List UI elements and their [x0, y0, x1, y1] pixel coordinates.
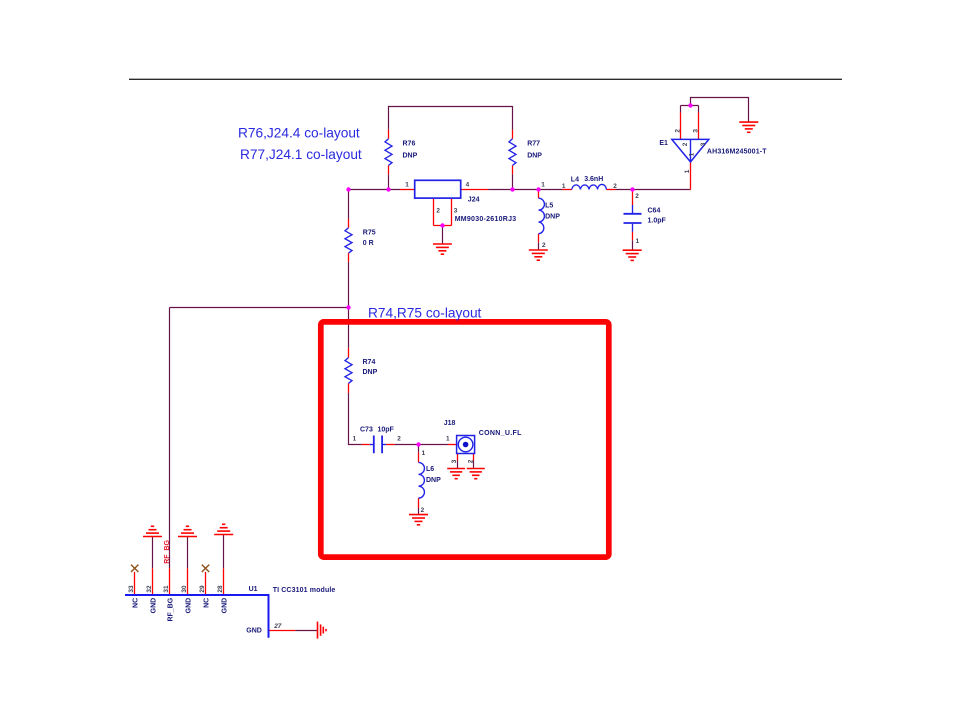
connector J18 body: [457, 436, 475, 454]
svg-text:1: 1: [353, 436, 357, 443]
pin stub R75 top: [348, 219, 350, 228]
svg-text:DNP: DNP: [527, 153, 542, 160]
svg-text:2: 2: [682, 142, 689, 146]
svg-text:2: 2: [397, 436, 401, 443]
pin stub antenna pin2: [680, 113, 682, 140]
wire R76 bottom to rail: [388, 174, 390, 189]
pin stub J24 pin3: [451, 198, 453, 225]
svg-text:10pF: 10pF: [378, 427, 395, 434]
svg-text:1: 1: [541, 181, 545, 188]
pin stub C73 pin2: [386, 444, 394, 446]
svg-text:DNP: DNP: [545, 214, 560, 221]
svg-text:28: 28: [217, 585, 224, 593]
svg-text:C64: C64: [648, 207, 661, 214]
svg-text:GND: GND: [186, 598, 193, 614]
svg-text:AH316M245001-T: AH316M245001-T: [707, 149, 767, 156]
wire U1 pin27 to ground: [295, 630, 317, 632]
wire antenna to ground: [691, 98, 749, 122]
svg-text:GND: GND: [222, 598, 229, 614]
pin stub R74 top: [348, 348, 350, 358]
pin stub J24 pin2: [433, 198, 435, 225]
ground L6: [409, 515, 428, 525]
node C73/J18/L6: [416, 442, 420, 446]
wire J24 pins ground stem: [442, 226, 444, 244]
svg-text:4: 4: [466, 181, 470, 188]
ground J18 pin3: [447, 469, 465, 479]
svg-text:L6: L6: [426, 466, 434, 473]
svg-text:2: 2: [635, 193, 639, 200]
svg-text:3: 3: [454, 207, 458, 214]
pin stub R77 top: [512, 130, 514, 139]
svg-text:1: 1: [688, 152, 695, 156]
ground U1 pin30 (inverted): [178, 526, 197, 536]
wire R76-R77 top loop: [389, 107, 513, 130]
wire antenna pin2 top: [680, 106, 682, 113]
pin stub L5 pin2: [538, 234, 540, 243]
svg-text:R74: R74: [363, 359, 376, 366]
pin stub R74 bottom: [348, 383, 350, 393]
svg-text:TI CC3101 module: TI CC3101 module: [273, 587, 336, 594]
U1 module edge (top): [125, 595, 269, 638]
wire R75 bottom to node: [348, 262, 350, 308]
wire node down to R74: [348, 308, 350, 348]
ground J18 pin2: [467, 469, 485, 479]
svg-text:NC: NC: [133, 598, 140, 608]
svg-text:RF_BG: RF_BG: [164, 540, 171, 564]
svg-text:29: 29: [199, 585, 206, 593]
ground U1 pin27 (rotated right): [318, 622, 327, 639]
svg-text:1.0pF: 1.0pF: [648, 217, 667, 224]
node antenna tie: [688, 103, 692, 107]
svg-text:U1: U1: [249, 586, 258, 593]
pin stub L4 pin2: [606, 189, 615, 191]
pin stub U1 pin30: [187, 568, 189, 595]
capacitor C73: [370, 436, 386, 454]
wire node down to L6: [418, 445, 420, 453]
svg-text:1: 1: [405, 181, 409, 188]
svg-text:33: 33: [128, 585, 135, 593]
svg-text:CONN_U.FL: CONN_U.FL: [479, 430, 522, 437]
svg-text:30: 30: [181, 585, 188, 593]
svg-text:3: 3: [693, 129, 700, 133]
wire main rail segment left of J24: [349, 189, 401, 191]
svg-text:GND: GND: [246, 628, 262, 635]
pin stub J24 pin4: [461, 189, 488, 191]
svg-text:E1: E1: [659, 140, 668, 147]
ground U1 pin28 (inverted): [214, 524, 233, 534]
pin stub R76 top: [388, 130, 390, 139]
svg-text:32: 32: [146, 585, 153, 593]
svg-text:L4: L4: [571, 177, 579, 184]
pin stub J24 pin1: [400, 189, 415, 191]
pin stub U1 pin33: [134, 572, 136, 595]
wire antenna tie bar: [681, 105, 699, 107]
resistor R74: [345, 358, 352, 384]
svg-text:R76: R76: [403, 140, 416, 147]
svg-text:NC: NC: [204, 598, 211, 608]
svg-text:31: 31: [163, 585, 170, 593]
svg-text:2: 2: [436, 207, 440, 214]
resistor R75: [345, 228, 352, 253]
wire node to J18: [419, 444, 449, 446]
pin stub L5 pin1: [538, 190, 540, 199]
wire U1 pin30 to ground: [187, 537, 189, 569]
pin stub C73 pin1: [362, 444, 370, 446]
svg-text:3: 3: [451, 459, 458, 463]
svg-text:1: 1: [636, 238, 640, 245]
pin stub R76 bottom: [388, 165, 390, 174]
svg-text:R77,J24.1 co-layout: R77,J24.1 co-layout: [240, 147, 362, 162]
svg-text:J18: J18: [444, 420, 456, 427]
wire U1 pin32 to ground: [152, 537, 154, 569]
pin stub R77 bottom: [512, 165, 514, 174]
wire J18 pin2 stem: [473, 461, 475, 469]
wire RF_BG vertical run to U1 pin 31: [169, 308, 171, 569]
pin stub L6 pin2: [418, 498, 420, 508]
svg-text:2: 2: [675, 129, 682, 133]
svg-text:DNP: DNP: [426, 477, 441, 484]
wire L6 bottom stem: [418, 508, 420, 514]
node L5/rail: [536, 187, 540, 191]
svg-text:2: 2: [421, 507, 425, 514]
svg-text:R74,R75 co-layout: R74,R75 co-layout: [368, 305, 482, 320]
svg-text:RF_BG: RF_BG: [168, 597, 175, 621]
pin stub antenna pin1: [690, 162, 692, 190]
wire L5 stem: [538, 242, 540, 249]
sheet border line: [129, 78, 842, 80]
resistor R76: [385, 139, 392, 166]
wire C64 stem: [632, 240, 634, 250]
svg-text:1: 1: [446, 436, 450, 443]
pin stub U1 pin29: [205, 572, 207, 595]
svg-text:R75: R75: [363, 229, 376, 236]
node R77/rail: [510, 187, 514, 191]
pin stub antenna pin3: [698, 113, 700, 140]
inductor L5: [539, 198, 545, 234]
wire rail L4 to C64 to antenna bend: [616, 189, 691, 191]
wire U1 pin28 to ground: [223, 535, 225, 569]
node RF_BG corner: [346, 305, 350, 309]
svg-text:3: 3: [700, 142, 707, 146]
pin stub J18 pin3: [457, 453, 459, 460]
svg-text:3.6nH: 3.6nH: [584, 176, 603, 183]
node C64/rail: [630, 187, 634, 191]
wire R74 bottom to C73: [349, 393, 362, 445]
capacitor C64: [624, 205, 642, 232]
svg-text:2: 2: [613, 183, 617, 190]
wire rail J24.4 to L4: [488, 189, 562, 191]
svg-text:MM9030-2610RJ3: MM9030-2610RJ3: [455, 216, 517, 223]
wire antenna pin3 top: [698, 106, 700, 113]
svg-text:0 R: 0 R: [363, 240, 374, 247]
inductor L4: [572, 184, 607, 189]
wire R77 bottom to rail: [512, 174, 514, 189]
wire C73 to node: [394, 444, 418, 446]
pin stub C64 pin2: [632, 190, 634, 206]
svg-text:2: 2: [542, 242, 546, 249]
wire J18 pin3 stem: [457, 461, 459, 469]
svg-text:27: 27: [273, 623, 282, 630]
svg-text:R76,J24.4 co-layout: R76,J24.4 co-layout: [238, 125, 360, 140]
pin stub J24 pins bottom tie: [434, 225, 452, 227]
node J24 pins 2-3: [440, 223, 444, 227]
svg-text:R77: R77: [527, 140, 540, 147]
ground antenna E1: [739, 122, 758, 132]
svg-text:GND: GND: [151, 598, 158, 614]
svg-text:1: 1: [684, 169, 691, 173]
pin stub R75 bottom: [348, 253, 350, 262]
svg-text:2: 2: [468, 459, 475, 463]
pin stub U1 pin27: [269, 630, 296, 632]
svg-text:L5: L5: [545, 202, 553, 209]
ground J24: [433, 244, 452, 254]
pin stub U1 pin28: [223, 568, 225, 595]
no-connect X pin33: [131, 565, 138, 572]
pin stub U1 pin32: [152, 568, 154, 595]
antenna E1 midline: [690, 139, 692, 162]
no-connect X pin29: [202, 565, 209, 572]
svg-text:1: 1: [562, 183, 566, 190]
pin stub J18 pin2: [473, 453, 475, 460]
node R75/rail corner: [346, 187, 350, 191]
ground L5: [529, 250, 548, 260]
wire node to RF_BG run (horizontal): [170, 307, 349, 309]
pin stub C64 pin1: [632, 232, 634, 241]
resistor R77: [509, 139, 516, 166]
node J24.1/R76: [386, 187, 390, 191]
pin stub J18 pin1: [448, 444, 457, 446]
pin stub L6 pin1: [418, 452, 420, 462]
ground C64: [623, 250, 642, 260]
svg-text:DNP: DNP: [403, 153, 418, 160]
wire R75 top: [348, 190, 350, 219]
pin stub U1 pin31: [169, 568, 171, 595]
svg-text:C73: C73: [360, 427, 373, 434]
svg-text:DNP: DNP: [363, 369, 378, 376]
antenna E1 triangle: [672, 139, 709, 162]
connector J24 body: [415, 180, 461, 198]
pin stub L4 pin1: [562, 189, 571, 191]
svg-text:J24: J24: [468, 196, 480, 203]
svg-text:1: 1: [422, 450, 426, 457]
inductor L6: [419, 462, 425, 498]
ground U1 pin32 (inverted): [143, 526, 162, 536]
